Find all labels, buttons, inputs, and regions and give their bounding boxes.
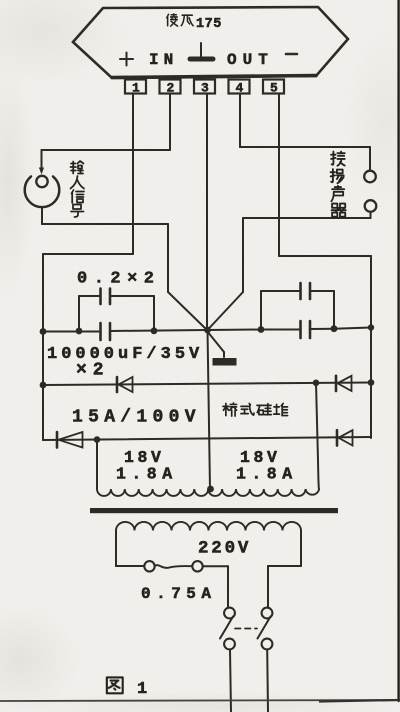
- wire pin5 down: [278, 94, 280, 257]
- switch S1 pole2 top terminal: [262, 608, 273, 619]
- transformer T1 primary winding: [116, 522, 301, 531]
- bottom page rule darker right portion: [319, 700, 400, 702]
- input jack J1 shell: [25, 177, 60, 208]
- svg-text:IN: IN: [149, 51, 178, 69]
- wire speaker return drop: [242, 218, 244, 292]
- node dot left loop stub B: [151, 327, 158, 334]
- switch S1 pole2 arm: [258, 617, 271, 639]
- input jack J1 inner contact: [36, 176, 47, 187]
- speaker terminal 2: [365, 200, 377, 212]
- wire primary right lead to switch drop: [268, 565, 301, 567]
- node dot AC2 on top rail: [313, 380, 320, 387]
- bottom page rule: [0, 700, 400, 701]
- wire capacitor rail right from ground node: [208, 329, 300, 332]
- switch S1 pole1 arm: [220, 617, 233, 639]
- CJK char YANG of speaker label: [331, 169, 344, 183]
- wire primary left lead down: [115, 531, 117, 567]
- diode D4 bottom-right triangle: [339, 430, 353, 445]
- node dot main ground node: [204, 327, 211, 334]
- diode D2 top-right cathode bar: [335, 376, 338, 391]
- wire pin2 down: [169, 94, 171, 151]
- node dot transformer center tap: [207, 486, 214, 493]
- CJK char XIN of input label: [72, 190, 85, 203]
- wire right loop down stub B: [333, 291, 335, 329]
- svg-text:×2: ×2: [76, 361, 110, 381]
- diode D1 top-left cathode bar: [116, 377, 119, 392]
- node dot top rail right end: [368, 379, 375, 386]
- CJK char GUA of 傻瓜175: [181, 15, 193, 26]
- minus sign label on U1: [286, 53, 297, 56]
- diode D4 bottom-right cathode bar: [336, 430, 339, 445]
- wire speaker return to ground drop: [243, 217, 371, 219]
- wire drop to switch pole 1: [227, 566, 229, 607]
- wire capacitor rail left to ground node: [111, 330, 208, 331]
- fuse F1 left terminal: [144, 561, 154, 571]
- wire mains lead 1: [230, 650, 231, 712]
- svg-text:1.8A: 1.8A: [236, 465, 298, 484]
- transformer T1 secondary winding: [97, 489, 319, 496]
- chassis ground stub: [207, 331, 224, 357]
- pin 4 terminal box: [229, 80, 250, 94]
- CJK char SHI of bridge label: [241, 403, 254, 415]
- wire jack shell down: [41, 207, 43, 224]
- wire slant speaker-return to ground node: [208, 292, 244, 330]
- speaker terminal 1: [364, 171, 376, 183]
- switch S1 gang link (dashed): [235, 628, 257, 630]
- diode D2 top-right triangle: [338, 376, 352, 391]
- fuse F1 right terminal: [192, 561, 202, 571]
- chassis ground bar: [213, 358, 237, 366]
- wire left loop down stub B: [153, 296, 155, 331]
- svg-text:15A/100V: 15A/100V: [72, 408, 201, 428]
- wire right loop up stub A: [260, 291, 262, 330]
- svg-text:220V: 220V: [198, 539, 251, 559]
- CJK char QIAO of bridge label: [223, 403, 237, 416]
- CJK char SHU of input label: [71, 161, 84, 174]
- svg-text:0.2×2: 0.2×2: [77, 270, 161, 289]
- node dot right rail at cap rail: [368, 324, 374, 330]
- wire pin1 down: [132, 94, 134, 255]
- CJK char JIE of speaker label: [331, 152, 345, 166]
- wire ground node to transformer center tap: [208, 330, 211, 489]
- ground symbol inside U1: [190, 43, 213, 59]
- wire pin4 down: [239, 94, 241, 148]
- wire down to speaker terminal 1: [369, 147, 371, 171]
- pin 3 terminal box: [194, 80, 215, 94]
- wire capacitor rail left segment: [43, 331, 100, 333]
- wire slant jack-return to ground node: [168, 292, 207, 330]
- CJK char SHA of 傻瓜175: [167, 14, 178, 26]
- wire AC1 drop to secondary left end: [96, 440, 98, 490]
- diode D3 bottom-left triangle: [59, 432, 83, 448]
- svg-text:OUT: OUT: [227, 51, 274, 69]
- wire right loop top right: [311, 290, 334, 292]
- transformer T1 core bar: [90, 508, 338, 513]
- node dot top rail left end: [40, 382, 47, 389]
- CJK char TU of figure label: [107, 677, 123, 693]
- wire pin4 to speaker terminal: [240, 146, 370, 148]
- CJK char GUI of bridge label: [257, 404, 271, 415]
- svg-text:1: 1: [132, 81, 140, 96]
- node dot left loop stub A: [76, 328, 83, 335]
- svg-text:1: 1: [137, 680, 147, 699]
- diode D3 bottom-left cathode bar: [56, 432, 59, 448]
- wire jack shell to ground drop: [42, 223, 168, 225]
- node dot right loop stub A: [258, 326, 265, 333]
- plus sign label on U1: [120, 53, 133, 66]
- svg-text:1.8A: 1.8A: [116, 465, 178, 484]
- CJK char HAO of input label: [71, 205, 84, 218]
- node dot right loop stub B: [331, 325, 338, 332]
- switch S1 pole1 top terminal: [224, 608, 235, 619]
- CJK char RU of input label: [71, 176, 85, 189]
- svg-text:2: 2: [167, 81, 175, 96]
- CJK char SHENG of speaker label: [331, 186, 344, 201]
- wire left loop up stub A: [78, 296, 80, 331]
- wire right loop top left: [261, 290, 300, 292]
- wire fuse to switch drop: [203, 565, 228, 567]
- capacitor C4 0.2uF right (loop plates): [301, 283, 311, 299]
- wire bridge top rail: [43, 383, 371, 386]
- diode D1 top-left triangle: [119, 377, 133, 392]
- node dot AC1 on bottom rail: [94, 436, 101, 443]
- fuse F1 wavy element: [155, 565, 193, 568]
- svg-text:10000uF/35V: 10000uF/35V: [47, 345, 203, 364]
- node dot left rail at cap rail: [40, 328, 47, 335]
- svg-text:0.75A: 0.75A: [141, 585, 217, 603]
- wire primary left lead to fuse: [116, 565, 144, 567]
- wire primary right lead down: [300, 531, 302, 567]
- wire left loop top left: [79, 295, 100, 297]
- input signal arrow into jack: [39, 150, 44, 175]
- wire speaker terminal 2 down: [370, 212, 372, 218]
- capacitor C1 10000uF/35V left (plates on rail): [101, 323, 111, 340]
- wire left loop top right: [111, 295, 154, 297]
- CJK char QI of speaker label: [332, 204, 346, 217]
- pin 1 terminal box: [125, 80, 146, 94]
- capacitor C3 10000uF/35V right (plates on rail): [301, 321, 311, 338]
- hexagon bottom edge emphasis: [112, 76, 316, 78]
- pin 2 terminal box: [160, 80, 181, 94]
- capacitor C2 0.2uF left (loop plates): [101, 289, 111, 305]
- wire right negative rail vertical: [370, 256, 372, 438]
- wire pin3 down to ground node: [206, 94, 208, 331]
- wire left positive rail vertical: [42, 254, 44, 440]
- wire ground drop from jack line: [167, 224, 169, 292]
- switch S1 pole1 bottom terminal: [224, 639, 235, 650]
- svg-text:175: 175: [196, 17, 222, 32]
- pin 5 terminal box: [263, 80, 284, 94]
- svg-text:4: 4: [236, 81, 244, 96]
- wire bridge bottom rail: [43, 437, 371, 440]
- svg-text:3: 3: [201, 81, 209, 96]
- page border vertical line right edge: [397, 0, 399, 701]
- switch S1 pole2 bottom terminal: [262, 639, 273, 650]
- wire AC2 drop to secondary right end: [316, 383, 319, 489]
- wire capacitor rail right segment: [311, 328, 371, 330]
- CJK char DUI of bridge label: [274, 403, 288, 415]
- wire pin5 to right rail: [279, 255, 371, 257]
- wire input jack tip to pin2: [42, 149, 171, 151]
- wire drop to switch pole 2: [267, 566, 269, 607]
- svg-text:5: 5: [270, 81, 278, 96]
- amplifier module U1 body (hexagon outline): [73, 7, 348, 78]
- wire mains lead 2: [266, 650, 269, 712]
- wire pin1 to left rail: [43, 253, 133, 255]
